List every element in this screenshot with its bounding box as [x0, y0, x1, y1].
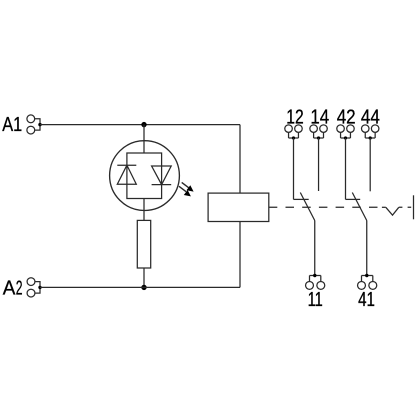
terminal 44 stubs and bar	[365, 132, 375, 138]
svg-text:A: A	[3, 278, 16, 300]
terminal A1 clamp circles	[27, 115, 35, 134]
terminal 41 bar	[362, 275, 373, 277]
wire inside circle top	[143, 141, 145, 153]
terminal 41 stubs	[362, 276, 373, 282]
terminal 42 clamp circles	[337, 125, 354, 133]
wire from box bottom through circle to resistor	[143, 199, 145, 221]
diode bridge box	[127, 153, 162, 199]
svg-text:11: 11	[308, 289, 323, 311]
mechanical linkage dashed line	[269, 206, 378, 208]
wire 44 down (NO fixed contact)	[369, 138, 371, 191]
terminal A2 clamp circles	[27, 278, 35, 297]
wire 42 down (NC fixed contact)	[345, 138, 347, 199]
terminal 41 clamp circles	[358, 281, 377, 289]
relay coil K1	[208, 193, 269, 221]
junction dot 42	[344, 136, 347, 139]
junction dot 44	[369, 136, 372, 139]
diode V2 (right LED, pointing down) triangle	[152, 166, 172, 185]
diode V1 (left, pointing up) cathode bar	[117, 164, 136, 166]
terminal 14 stubs and bar	[314, 132, 324, 138]
junction dot at A2 bracket	[38, 286, 41, 289]
terminal 14 clamp circles	[310, 125, 327, 133]
terminal 12 clamp circles	[285, 125, 302, 133]
wire resistor to A2 wire	[143, 268, 145, 287]
svg-text:2: 2	[16, 278, 23, 300]
svg-text:A1: A1	[2, 114, 22, 136]
wire A2 horizontal to coil bottom corner	[40, 286, 240, 288]
svg-text:41: 41	[358, 289, 375, 311]
junction dot at A1 bracket	[38, 123, 41, 126]
node junction on A2 wire	[141, 285, 146, 290]
diode V1 triangle	[117, 165, 136, 184]
terminal 44 clamp circles	[362, 125, 379, 133]
junction dot 12	[292, 136, 295, 139]
junction dot 14	[317, 136, 320, 139]
wire arm 1 down to terminal 11	[314, 221, 316, 276]
terminal A2 bracket	[35, 282, 40, 294]
wire A1 horizontal to coil corner	[40, 124, 240, 126]
NC contact seat foot	[294, 198, 309, 200]
junction dot 41	[365, 274, 368, 277]
wire corner down from A1 wire to relay coil	[239, 125, 241, 194]
wire 14 down (NO fixed contact)	[318, 138, 320, 191]
LED emission arrow 2	[179, 186, 191, 196]
wire from A1 node down to indicator circle	[143, 125, 145, 141]
terminal 42 stubs and bar	[341, 132, 351, 138]
linkage dashes to armature bar	[399, 206, 414, 208]
junction dot 11	[313, 274, 316, 277]
linkage V notch	[386, 207, 399, 215]
indicator lamp circle U1	[110, 141, 180, 211]
terminal 11 stubs	[310, 276, 321, 282]
terminal 12 stubs and bar	[289, 132, 299, 138]
changeover contact 2 moving arm	[352, 193, 366, 221]
terminal 11 clamp circles	[306, 281, 325, 289]
resistor R1	[137, 220, 150, 268]
NC contact seat foot 2	[346, 198, 361, 200]
wire from coil bottom to A2 wire	[239, 222, 241, 288]
terminal 11 bar	[310, 275, 321, 277]
wire arm 2 down to terminal 41	[366, 221, 368, 276]
terminal A1 bracket	[35, 119, 40, 130]
armature bar	[413, 195, 415, 219]
diode V2 cathode bar	[152, 184, 172, 186]
changeover contact 1 moving arm	[300, 193, 314, 221]
node junction on A1 wire above indicator	[141, 122, 146, 127]
LED emission arrow 1	[182, 182, 194, 191]
wire 12 down (NC fixed contact)	[293, 138, 295, 199]
